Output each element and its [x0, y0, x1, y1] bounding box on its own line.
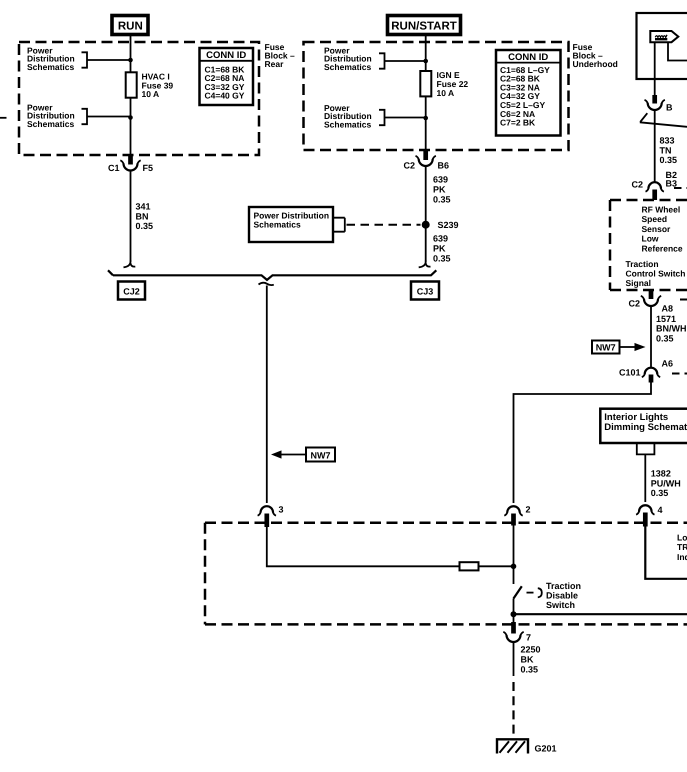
- instrument cluster (dashed outline): [205, 523, 687, 625]
- svg-text:7: 7: [526, 632, 531, 642]
- wire RUN/START to fuse block underhood: [425, 35, 427, 62]
- svg-text:C2: C2: [403, 161, 415, 171]
- connector table CONN ID rear: [200, 48, 254, 105]
- wire through fuse: [425, 61, 427, 118]
- svg-text:C1: C1: [108, 163, 120, 173]
- svg-text:RUN/START: RUN/START: [391, 20, 457, 32]
- wire bracket lower: [82, 109, 131, 124]
- resistor: [460, 562, 479, 570]
- dashed wire to ground: [512, 682, 514, 736]
- wire fuse to C1: [130, 118, 132, 155]
- svg-text:A6: A6: [662, 358, 674, 368]
- connector C2 dashed boundary: [674, 187, 687, 189]
- svg-text:CONN ID: CONN ID: [206, 50, 246, 61]
- wire bracket upper: [379, 53, 426, 68]
- dashed wire to S239: [347, 224, 421, 226]
- svg-text:S239: S239: [438, 220, 459, 230]
- off page wire marker: [640, 113, 687, 127]
- connector 7: [503, 614, 531, 642]
- svg-text:LowTRACIndicator: LowTRACIndicator: [677, 533, 687, 562]
- svg-text:CONN ID: CONN ID: [508, 52, 548, 63]
- wire 1382 PU/WH 0.35: [644, 454, 646, 502]
- wire RUN to fuse block rear: [130, 35, 132, 61]
- wire bracket to S239: [333, 218, 345, 232]
- svg-text:A8: A8: [662, 304, 674, 314]
- junction: [128, 115, 133, 120]
- wire junction to right edge: [514, 613, 687, 615]
- svg-text:2: 2: [526, 505, 531, 515]
- wire connector 3 to resistor: [267, 527, 514, 566]
- connector 4: [636, 505, 662, 527]
- junction: [423, 116, 428, 121]
- node RUN/START: [388, 16, 461, 35]
- wire 639 PK 0.35 upper: [425, 166, 427, 262]
- splice S239: [422, 221, 430, 229]
- arrow NW7 to wire: [271, 450, 306, 458]
- svg-text:C2: C2: [628, 299, 640, 309]
- svg-text:G201: G201: [535, 743, 557, 753]
- wire C101 to connector 2: [514, 383, 652, 504]
- junction: [423, 59, 428, 64]
- svg-text:C1=68 BKC2=68 NAC3=32 GYC4=40: C1=68 BKC2=68 NAC3=32 GYC4=40 GY: [205, 64, 246, 100]
- svg-text:F5: F5: [143, 163, 154, 173]
- fuse block underhood (dashed outline): [304, 42, 569, 150]
- fuse IGN E Fuse 22: [420, 70, 468, 98]
- junction: [511, 611, 517, 617]
- svg-text:CJ2: CJ2: [123, 286, 140, 296]
- svg-text:C101: C101: [619, 368, 641, 378]
- harness NW7: [592, 341, 620, 354]
- fuse block rear (dashed outline): [19, 42, 259, 155]
- wire 1571 BN/WH 0.35: [650, 306, 652, 368]
- wire end curl at splice pack: [419, 261, 431, 268]
- stray wire at left edge: [0, 117, 7, 119]
- svg-text:CJ3: CJ3: [417, 286, 434, 296]
- power distribution schematics reference box: [249, 207, 333, 242]
- connector 2: [504, 505, 530, 526]
- svg-text:B6: B6: [438, 161, 450, 171]
- svg-text:3: 3: [279, 505, 284, 515]
- fuse HVAC I Fuse 39: [126, 72, 174, 100]
- connector C101 dashed boundary: [672, 373, 687, 375]
- junction: [511, 564, 517, 570]
- arrow NW7 to wire: [620, 343, 646, 351]
- svg-text:4: 4: [658, 505, 663, 515]
- connector C2 pin B6: [403, 150, 449, 170]
- svg-text:B: B: [666, 103, 673, 113]
- RF wheel speed sensor box (dashed outline): [610, 200, 687, 290]
- terminal tag symbol: [650, 31, 678, 42]
- connector C2 B2/B3: [631, 180, 663, 201]
- wire fuse to C2: [425, 118, 427, 150]
- wire end curl at splice pack: [124, 261, 136, 268]
- wire bracket upper: [82, 52, 131, 67]
- junction: [128, 58, 133, 63]
- connector B: [645, 95, 674, 113]
- wire tag right branch: [668, 42, 687, 60]
- ground G201: [497, 739, 557, 753]
- connector C1 pin F5: [108, 155, 153, 173]
- wire bracket lower: [379, 110, 426, 125]
- wire switch to junction: [513, 599, 515, 615]
- connector 3: [258, 505, 284, 528]
- wire through fuse: [130, 60, 132, 118]
- body control module box (top right): [637, 13, 687, 79]
- wire start curl below bus: [259, 283, 274, 285]
- node RUN: [112, 16, 148, 35]
- svg-text:NW7: NW7: [596, 343, 616, 353]
- harness NW7: [306, 448, 335, 462]
- wire bus to connector 3: [266, 286, 268, 504]
- wire tag to connector B: [654, 42, 656, 95]
- svg-text:RUN: RUN: [118, 20, 143, 32]
- connector C101 A6: [619, 368, 660, 383]
- wire 2250 BK 0.35: [513, 642, 515, 676]
- wire 833 TN 0.35: [654, 110, 656, 182]
- wire 341 BN 0.35: [130, 171, 132, 262]
- connector table CONN ID underhood: [496, 50, 561, 136]
- wire bracket below box: [637, 444, 655, 455]
- splice pack bus CJ2/CJ3: [108, 270, 436, 280]
- svg-text:NW7: NW7: [311, 450, 331, 460]
- svg-text:C2: C2: [631, 180, 643, 190]
- node CJ2: [118, 282, 145, 300]
- switch: Traction Disable Switch: [514, 581, 582, 610]
- wire connector 4 to low trac indicator: [645, 527, 687, 579]
- node CJ3: [411, 282, 439, 300]
- interior lights dimming schematics box: [600, 409, 687, 443]
- connector C2 pin A8: [628, 291, 673, 314]
- connector C2 dashed boundary: [680, 299, 687, 301]
- wire connector 2 to switch: [513, 526, 515, 585]
